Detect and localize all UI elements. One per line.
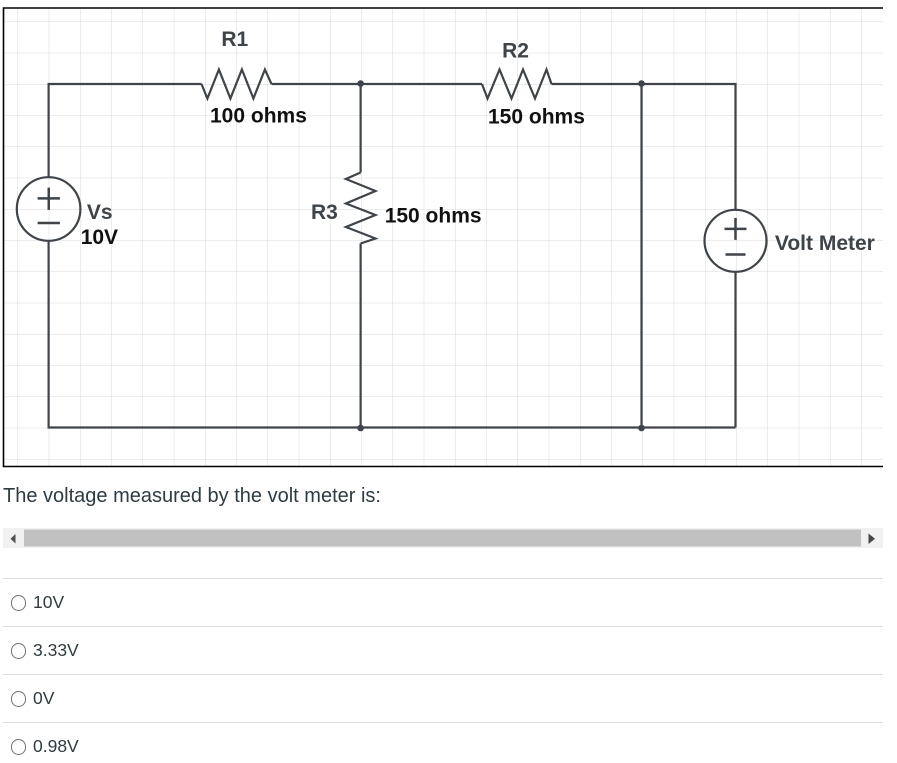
svg-text:Volt Meter: Volt Meter (775, 232, 875, 255)
option label 0.98V (33, 738, 79, 756)
minus sign of volt meter (726, 253, 746, 256)
svg-text:150 ohms: 150 ohms (488, 106, 585, 129)
svg-text:10V: 10V (81, 226, 118, 249)
svg-text:100 ohms: 100 ohms (210, 105, 307, 128)
minus sign of Vs (38, 222, 60, 225)
option label 0V (33, 690, 54, 708)
horizontal scrollbar (0, 520, 897, 556)
node junction top (R1/R2/R3) (357, 80, 364, 87)
option label 3.33V (33, 642, 79, 660)
circuit schematic panel (0, 0, 897, 470)
svg-text:Vs: Vs (87, 201, 113, 224)
svg-text:150 ohms: 150 ohms (385, 205, 482, 228)
node junction bottom left (R3/bottom wire) (357, 425, 364, 432)
node junction bottom right (middle branch/bottom wire) (638, 425, 645, 432)
resistor R1 zigzag (202, 70, 272, 99)
resistor R2 zigzag (482, 70, 552, 99)
volt meter U1 circle (705, 210, 767, 272)
svg-text:R1: R1 (221, 28, 248, 51)
wire: Vs bottom lead, left and bottom segments (49, 241, 736, 428)
radio button option 2 (11, 643, 27, 659)
voltage source Vs (17, 177, 81, 241)
wire: R1 to R2 (272, 83, 483, 85)
wire: R2 to top-right corner, down to volt meter (552, 84, 736, 210)
option separator 2 (3, 626, 883, 627)
scrollbar left arrow (11, 534, 16, 544)
wire: Vs top lead and top-left segment (49, 84, 202, 177)
plus sign of volt meter (725, 218, 747, 240)
svg-text:R3: R3 (311, 201, 338, 224)
radio button option 1 (11, 595, 27, 611)
option separator 1 (3, 578, 883, 579)
wire: R3 top lead (360, 84, 362, 173)
question text (3, 486, 381, 506)
wire: R3 bottom lead (360, 244, 362, 428)
wire: middle vertical branch (640, 84, 642, 428)
grid background (4, 9, 883, 467)
scrollbar right arrow (869, 534, 876, 545)
node junction top right (R2/middle branch) (638, 80, 645, 87)
option label 10V (33, 594, 64, 612)
resistor R3 zigzag (346, 173, 376, 244)
radio button option 3 (11, 691, 27, 707)
wire: volt meter bottom lead (734, 272, 736, 428)
option separator 4 (3, 722, 883, 723)
option separator 3 (3, 674, 883, 675)
scrollbar track (3, 528, 883, 548)
scrollbar thumb (24, 530, 861, 547)
radio button option 4 (11, 739, 27, 755)
plus sign of Vs (38, 188, 60, 210)
panel border (top,left,bottom only) (4, 8, 884, 467)
svg-text:R2: R2 (502, 39, 529, 62)
